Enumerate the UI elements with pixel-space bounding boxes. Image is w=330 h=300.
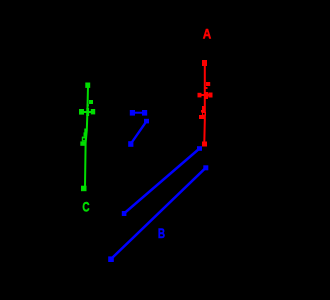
B long line lower [111, 168, 206, 259]
track A bottom square [202, 142, 207, 147]
track A error bar [198, 94, 213, 96]
svg-text:A: A [203, 25, 212, 41]
svg-text:C: C [82, 199, 89, 215]
track C step markers [84, 129, 87, 133]
B short diagonal [131, 122, 146, 144]
svg-text:B: B [158, 225, 165, 241]
track C point square [89, 100, 93, 104]
track C bottom square [81, 186, 87, 192]
B short dumbbell [133, 112, 144, 114]
B long line upper [124, 149, 200, 214]
track C top square [85, 83, 90, 88]
track A top square [202, 60, 207, 66]
track C error bar [79, 111, 94, 113]
track A line [203, 63, 206, 143]
track C line [85, 86, 88, 187]
track A step markers [202, 106, 205, 110]
track A point square [206, 82, 210, 86]
